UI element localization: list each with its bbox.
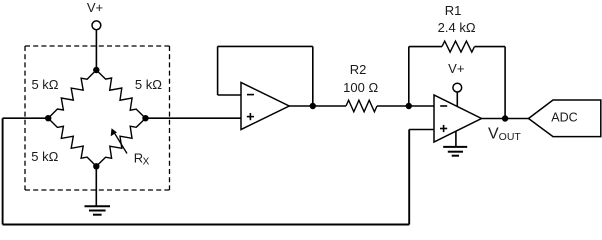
resistor R2 zigzag [346, 100, 377, 112]
resistor 5 kOhm (top-right bridge arm) [96, 70, 145, 118]
svg-text:R1: R1 [445, 3, 462, 18]
op-amp U2 triangle [434, 95, 482, 142]
wire U1 feedback right vertical [312, 46, 314, 106]
wire bottom horizontal run [3, 224, 410, 226]
svg-text:5 kΩ: 5 kΩ [31, 77, 58, 92]
U1 plus sign [247, 113, 254, 120]
U1 minus sign [247, 94, 254, 96]
wire R2 to op-amp2 inverting input [377, 105, 434, 107]
svg-text:V+: V+ [448, 61, 464, 76]
U2 plus sign [440, 125, 447, 132]
node right (bridge) [142, 115, 148, 121]
node left (bridge) [45, 115, 51, 121]
ground (bridge) [85, 206, 111, 214]
svg-text:2.4 kΩ: 2.4 kΩ [438, 20, 476, 35]
resistor RX variable (bottom-right bridge arm) [96, 118, 145, 166]
wire U1 inverting input stub [218, 94, 241, 96]
variable-resistor arrow (RX) [111, 128, 127, 153]
node R2 / feedback junction [406, 103, 412, 109]
node top (bridge) [93, 67, 99, 73]
svg-text:5 kΩ: 5 kΩ [31, 149, 58, 164]
ground (op-amp2) [443, 147, 467, 156]
op-amp U1 buffer triangle [241, 83, 289, 130]
wire left bridge node to left edge [3, 117, 49, 119]
dashed box (bridge enclosure) [25, 46, 170, 190]
wire U2 output to ADC [482, 118, 529, 120]
svg-text:VOUT: VOUT [488, 125, 521, 143]
wire V+ terminal to op-amp2 top edge [456, 92, 458, 106]
ADC tag pentagon [529, 100, 601, 137]
svg-text:V+: V+ [87, 0, 103, 15]
node U1 output junction [310, 103, 316, 109]
node bottom (bridge) [93, 163, 99, 169]
wire U1 output [289, 105, 346, 107]
node V+ supply terminal (op-amp2) [453, 83, 462, 92]
node U2 output junction [502, 115, 508, 121]
wire R1 feedback left vertical [408, 47, 410, 106]
wire R1 feedback top-left segment [409, 46, 442, 48]
svg-text:ADC: ADC [551, 110, 577, 124]
wire U1 feedback top [218, 45, 313, 47]
resistor 5 kOhm (top-left bridge arm) [48, 70, 96, 118]
svg-text:100 Ω: 100 Ω [343, 80, 378, 95]
wire U2 power pin to ground [455, 131, 457, 147]
wire left vertical run [2, 118, 4, 224]
node V+ supply terminal (bridge) [92, 21, 101, 70]
wire R1 feedback right vertical [504, 47, 506, 119]
U2 minus sign [440, 105, 447, 107]
wire into op-amp2 + input [409, 129, 434, 131]
wire right bridge node to buffer + input [146, 117, 242, 119]
wire U1 feedback left vertical [217, 46, 219, 95]
resistor 5 kOhm (bottom-left bridge arm) [48, 118, 96, 166]
wire up to op-amp2 + input [408, 130, 410, 225]
svg-text:RX: RX [134, 150, 150, 167]
wire bottom node to ground [95, 166, 97, 206]
resistor R1 zigzag [442, 41, 475, 52]
wire R1 feedback top-right segment [475, 46, 506, 48]
svg-text:5 kΩ: 5 kΩ [135, 77, 162, 92]
svg-text:R2: R2 [350, 62, 367, 77]
